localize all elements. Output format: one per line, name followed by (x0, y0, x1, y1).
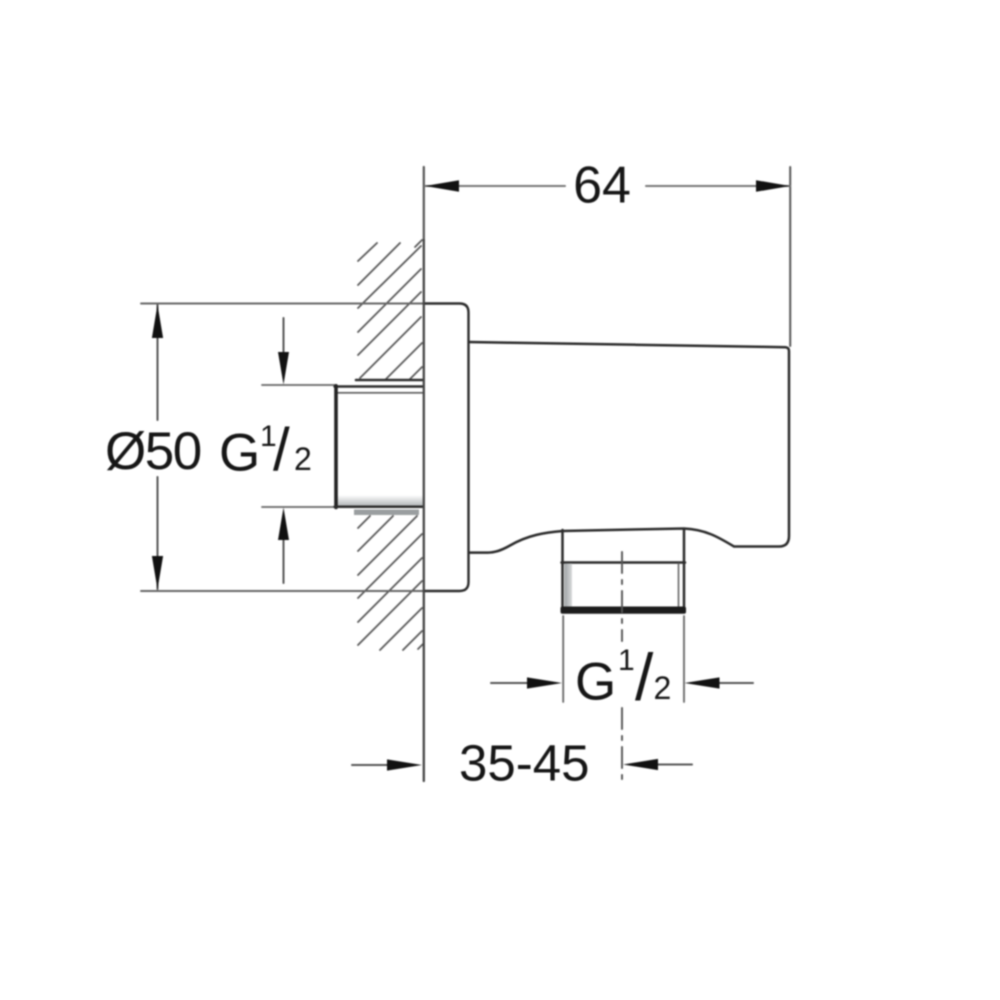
inlet stub top edge (335, 385, 424, 388)
hatch lower block (358, 516, 423, 650)
dim D50 extension line top (141, 303, 424, 305)
svg-text:G: G (219, 424, 260, 483)
outlet right inner line (678, 564, 680, 607)
outlet shoulder line (562, 561, 686, 564)
svg-text:G: G (575, 653, 616, 712)
flange escutcheon (424, 304, 469, 592)
dim D50 arrowhead top (152, 305, 163, 338)
dim 64 dimension line (425, 185, 790, 187)
dim 64 arrowhead left (425, 180, 459, 192)
inlet thread dim extension line bottom (262, 506, 336, 508)
outlet thread dim line left with arrow (491, 682, 540, 684)
dim D50 dimension line (157, 305, 159, 589)
dim 64 extension line left (wall top) (423, 167, 425, 240)
hatch boundary line above inlet stub (356, 379, 423, 382)
dim 64 arrowhead right (756, 180, 790, 192)
dim D50 extension line bottom (141, 590, 424, 592)
svg-text:2: 2 (294, 441, 312, 477)
wall face line (423, 240, 425, 781)
outlet bottom thick edge (561, 607, 687, 614)
outlet thread dim extension line left (562, 616, 564, 702)
svg-text:Ø50: Ø50 (105, 422, 201, 481)
inlet thread dim line lower with arrow up (283, 532, 285, 583)
hatch upper block (358, 240, 422, 379)
inlet thread dim line upper with arrow down (283, 318, 285, 360)
outlet thread dim line right with arrow (706, 682, 753, 684)
svg-text:2: 2 (654, 670, 672, 706)
inlet stub body (336, 387, 424, 506)
svg-text:/: / (273, 416, 290, 483)
dim D50 arrowhead bottom (152, 556, 163, 589)
inlet stub bottom edge (335, 506, 424, 509)
inlet stub thread line (337, 392, 423, 394)
outlet left inner shading (565, 564, 573, 607)
outlet stub left edge (561, 530, 564, 612)
centre line of outlet (621, 552, 623, 782)
svg-text:1: 1 (618, 644, 635, 677)
dim 35-45 line right with arrow (651, 764, 692, 766)
inlet stub left edge (334, 386, 338, 508)
body spout outline (469, 342, 790, 553)
svg-text:35-45: 35-45 (459, 735, 589, 792)
gray stripe below inlet stub (354, 510, 419, 516)
dim 64 extension line right (789, 167, 791, 346)
outlet stub right edge (683, 529, 686, 612)
svg-text:64: 64 (573, 157, 631, 215)
outlet thread dim extension line right (683, 616, 685, 702)
inlet stub gradient underside (338, 495, 424, 507)
dim 35-45 line left with arrow (352, 764, 395, 766)
svg-text:/: / (635, 640, 654, 714)
inlet thread dim extension line top (262, 384, 336, 386)
